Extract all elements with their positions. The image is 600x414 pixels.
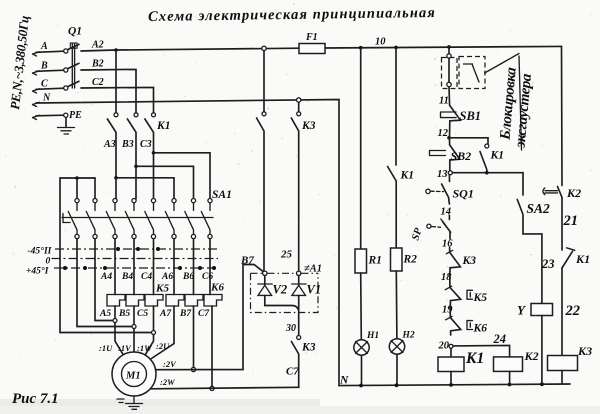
svg-text:Y: Y xyxy=(517,303,526,318)
svg-text:B4: B4 xyxy=(121,272,133,282)
svg-text:К1: К1 xyxy=(575,252,590,266)
svg-text:К1: К1 xyxy=(490,150,505,162)
svg-text:C7: C7 xyxy=(198,309,210,319)
svg-text:11: 11 xyxy=(439,96,449,107)
svg-text:SA1: SA1 xyxy=(212,189,232,201)
svg-text:Рис 7.1: Рис 7.1 xyxy=(12,391,59,407)
svg-text:М1: М1 xyxy=(125,371,141,382)
svg-text:N: N xyxy=(42,93,51,104)
svg-text:A5: A5 xyxy=(99,309,111,319)
svg-text:20: 20 xyxy=(438,341,450,352)
svg-text:F1: F1 xyxy=(305,32,318,43)
svg-text:К3: К3 xyxy=(462,255,477,267)
svg-text:21: 21 xyxy=(563,213,579,229)
svg-text:SA2: SA2 xyxy=(527,201,551,216)
svg-text:К1: К1 xyxy=(465,350,484,367)
svg-text:B7: B7 xyxy=(179,309,192,319)
svg-text:C3: C3 xyxy=(140,139,152,150)
svg-text:10: 10 xyxy=(375,37,386,48)
svg-text:B3: B3 xyxy=(121,139,134,150)
svg-text:H2: H2 xyxy=(402,331,415,341)
svg-text:SB1: SB1 xyxy=(460,109,482,123)
svg-text:A7: A7 xyxy=(159,309,172,319)
svg-text:0: 0 xyxy=(46,257,51,267)
svg-text:SB2: SB2 xyxy=(451,149,472,163)
svg-text:К6: К6 xyxy=(473,323,488,335)
svg-text:C2: C2 xyxy=(92,77,104,88)
svg-text:19: 19 xyxy=(442,305,453,316)
svg-text:К6: К6 xyxy=(210,282,224,294)
svg-text:К3: К3 xyxy=(301,120,316,132)
svg-text:V2: V2 xyxy=(273,283,288,297)
svg-text:V1: V1 xyxy=(307,283,322,297)
svg-text:C: C xyxy=(41,79,48,90)
svg-text:C4: C4 xyxy=(141,272,152,282)
svg-text:A: A xyxy=(40,41,48,52)
svg-text::1V: :1V xyxy=(118,343,132,353)
svg-text:A6: A6 xyxy=(161,272,173,282)
svg-text:К3: К3 xyxy=(301,342,316,354)
svg-text::1U: :1U xyxy=(99,343,113,353)
svg-text:30: 30 xyxy=(285,323,296,334)
svg-text:К2: К2 xyxy=(566,186,581,200)
svg-text:К1: К1 xyxy=(156,120,171,132)
svg-text:C6: C6 xyxy=(202,272,213,282)
svg-text::1W: :1W xyxy=(137,343,153,353)
svg-text:К3: К3 xyxy=(577,344,592,358)
svg-text:Q1: Q1 xyxy=(68,26,82,38)
svg-text:SQ1: SQ1 xyxy=(453,187,474,201)
svg-text::2U: :2U xyxy=(156,341,170,351)
svg-text:22: 22 xyxy=(565,303,581,319)
svg-text:12: 12 xyxy=(438,128,449,139)
svg-text:13: 13 xyxy=(437,169,448,180)
svg-text:16: 16 xyxy=(442,239,453,250)
svg-text:A4: A4 xyxy=(100,272,112,282)
svg-text:-45°II: -45°II xyxy=(28,246,52,257)
svg-text::2V: :2V xyxy=(163,359,177,369)
svg-text:К5: К5 xyxy=(155,283,169,295)
svg-text:R1: R1 xyxy=(368,255,382,267)
svg-text:К1: К1 xyxy=(400,170,415,182)
svg-text:+45°I: +45°I xyxy=(26,266,49,277)
svg-text:R2: R2 xyxy=(403,254,418,266)
svg-text:A3: A3 xyxy=(103,139,116,150)
svg-text::2W: :2W xyxy=(160,377,176,387)
svg-text:B5: B5 xyxy=(118,309,130,319)
svg-text:PE: PE xyxy=(69,110,82,121)
svg-text:23: 23 xyxy=(541,257,555,271)
svg-text:B2: B2 xyxy=(91,59,104,70)
svg-text:К5: К5 xyxy=(473,292,488,304)
svg-text:N: N xyxy=(339,375,349,387)
svg-text:B6: B6 xyxy=(182,272,194,282)
svg-text:H1: H1 xyxy=(366,331,379,341)
svg-text:25: 25 xyxy=(280,249,293,261)
svg-text:К2: К2 xyxy=(524,349,539,363)
svg-text:C5: C5 xyxy=(137,309,148,319)
svg-text:C7: C7 xyxy=(286,366,299,378)
svg-text:24: 24 xyxy=(493,332,507,346)
svg-text:B: B xyxy=(40,61,48,72)
svg-text:A2: A2 xyxy=(91,40,104,51)
svg-text:B7: B7 xyxy=(240,255,254,267)
